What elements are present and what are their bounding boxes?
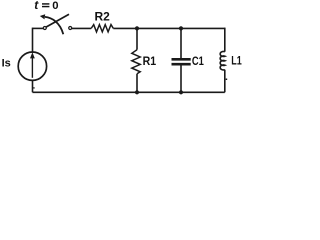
capacitor C1 bottom plate xyxy=(172,63,191,66)
resistor R2 (horizontal zigzag) xyxy=(91,25,113,32)
junction dot bottom R1 xyxy=(135,90,139,94)
junction dot bottom C1 xyxy=(179,90,183,94)
capacitor C1 top plate xyxy=(172,58,191,61)
resistor R1 (vertical zigzag) xyxy=(132,50,140,74)
switch left terminal xyxy=(43,27,46,30)
switch motion arc xyxy=(45,17,63,34)
wire: left branch vertical (top corner down to current source) xyxy=(32,28,34,53)
wire: top-left stub from corner to switch left terminal xyxy=(33,27,44,29)
wire: current source bottom to bottom-left corner xyxy=(32,80,34,93)
wire: L1 bottom to bottom-right corner xyxy=(224,70,226,93)
wire: bottom horizontal xyxy=(33,91,225,93)
current source arrow shaft xyxy=(31,58,33,78)
junction dot top R1 xyxy=(135,26,139,30)
connection tick left branch xyxy=(33,87,34,88)
svg-text:0: 0 xyxy=(52,0,58,12)
current source Is circle xyxy=(18,52,46,80)
current source arrowhead xyxy=(30,52,35,58)
wire: R1 bottom stub xyxy=(136,74,138,93)
svg-text:t: t xyxy=(34,0,39,12)
wire: C1 bottom stub xyxy=(180,65,182,92)
wire: right branch top (corner down to L1) xyxy=(224,28,226,52)
wire: R1 branch top stub xyxy=(136,28,138,49)
svg-text:R1: R1 xyxy=(143,55,157,68)
svg-text:C1: C1 xyxy=(192,55,204,68)
connection tick right branch xyxy=(226,79,228,81)
wire: switch right terminal to R2 xyxy=(72,27,92,29)
switch right terminal xyxy=(69,27,72,30)
junction dot top C1 xyxy=(179,26,183,30)
svg-text:L1: L1 xyxy=(231,54,242,68)
svg-text:R2: R2 xyxy=(95,10,111,24)
inductor L1 (4 left bumps) xyxy=(220,51,225,70)
switch motion arrowhead xyxy=(40,14,45,19)
svg-text:Is: Is xyxy=(2,57,11,69)
wire: R2 to top-right corner xyxy=(113,27,225,29)
switch blade xyxy=(46,14,69,27)
wire: C1 branch top stub xyxy=(180,28,182,58)
